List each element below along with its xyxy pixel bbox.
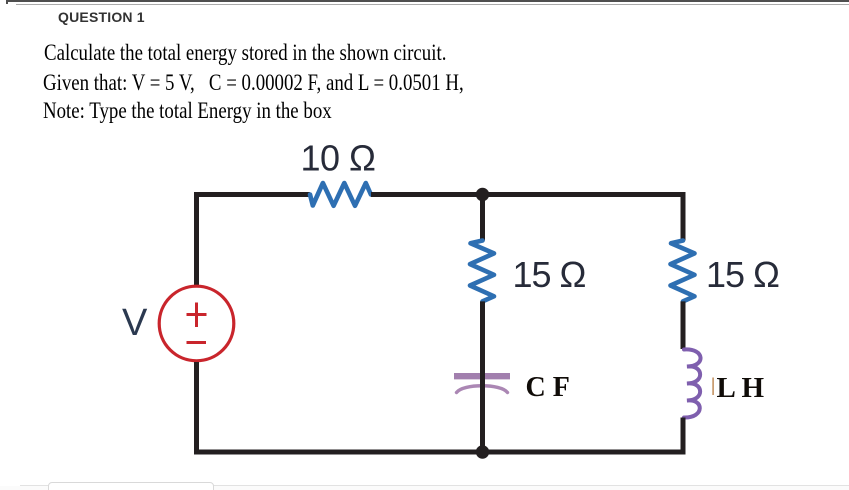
wire left vertical lower <box>194 362 199 454</box>
wire right vertical middle <box>681 301 686 349</box>
heading QUESTION 1 <box>58 9 145 25</box>
answer input box top edge <box>48 482 214 490</box>
node bottom junction dot <box>476 445 489 458</box>
resistor R2 15ohm vertical middle <box>470 241 494 302</box>
wire top-right horizontal <box>371 192 683 197</box>
svg-text:V: V <box>122 302 148 344</box>
node top junction dot <box>476 188 489 201</box>
bottom light divider line <box>20 485 849 486</box>
resistor R3 15ohm vertical right <box>671 241 695 302</box>
svg-text:15 Ω: 15 Ω <box>513 254 586 295</box>
capacitor C1 bottom curved plate <box>457 386 508 393</box>
wire top-left horizontal <box>194 192 310 197</box>
svg-text:C F: C F <box>526 372 570 403</box>
orange tick artifact before L H <box>712 378 714 396</box>
resistor R1 10ohm horizontal <box>310 183 371 206</box>
wire right vertical lower <box>681 418 686 455</box>
wire left vertical upper <box>194 192 199 285</box>
svg-text:10 Ω: 10 Ω <box>301 138 376 179</box>
top light divider line <box>16 4 849 5</box>
problem text line 3 <box>43 98 332 124</box>
problem text line 2 <box>43 70 464 96</box>
capacitor C1 top plate <box>454 373 510 379</box>
wire middle vertical lower <box>480 301 485 452</box>
problem text line 1 <box>44 40 446 66</box>
source V circle <box>159 286 234 361</box>
source plus sign <box>187 303 207 328</box>
svg-text:L H: L H <box>717 372 765 404</box>
top dark border left tick <box>6 0 8 4</box>
svg-text:15 Ω: 15 Ω <box>706 254 779 295</box>
top dark border line <box>6 0 849 2</box>
source minus sign <box>187 341 207 344</box>
wire bottom horizontal <box>194 450 686 455</box>
wire middle vertical upper <box>480 195 485 241</box>
bottom strip background <box>0 486 849 490</box>
inductor L1 coil <box>684 349 701 417</box>
wire right vertical upper <box>681 192 686 241</box>
